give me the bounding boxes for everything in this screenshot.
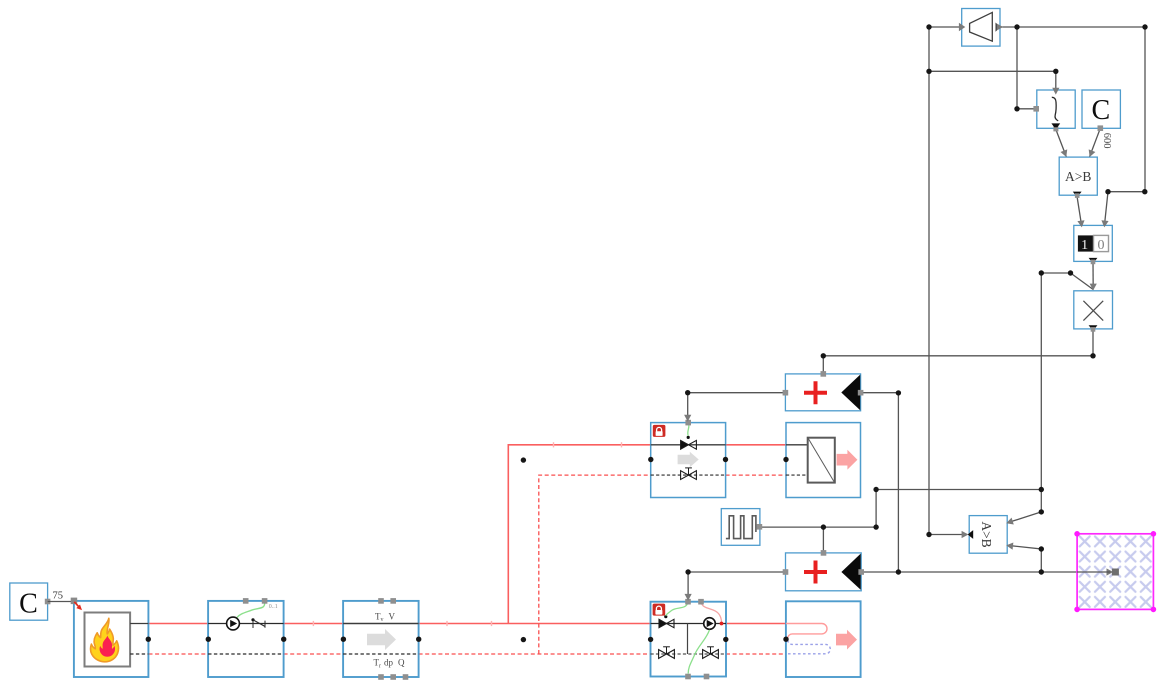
internal supply line [651,623,727,625]
heat output arrow (pink) [836,630,857,650]
input arrow: A>B1 input A [1061,149,1070,158]
junction dot: node gain output branch [1014,24,1019,29]
junction dot: heat exchanger inlet port [783,457,788,462]
wire: gain output branch into switch left input [1017,27,1034,109]
input arrow: selector input 1 [1077,220,1085,228]
junction dot: riser corner junction [521,457,526,462]
plus sign [804,561,827,584]
gain block (triangle) [962,9,1004,47]
internal return line [651,653,727,655]
junction dot: sensor inlet port [341,637,346,642]
internal supply line [786,444,808,446]
junction dot: node top adder feedback [896,390,901,395]
junction dot: node pulse net turn [873,524,878,529]
junction dot: node A>B2 output corner [926,532,931,537]
svg-text:A>B: A>B [979,521,994,547]
balancing valve (return) [681,468,697,480]
switch block (trigger) [1033,90,1075,131]
flow arrow [678,452,699,467]
wire: bottom adder output to bottom valve group control input [688,572,785,599]
junction dot: boiler outlet port [146,637,151,642]
junction dot: node selector input corner [1105,189,1110,194]
square wave icon [726,516,756,539]
wire: product output down and left to top adder input [823,329,1093,372]
pump block internal supply line [208,623,284,625]
svg-text:600: 600 [1101,133,1112,149]
svg-text:1: 1 [1081,238,1088,253]
pulse generator block [721,509,762,546]
junction dot: node room bus to A>B2 [1039,569,1044,574]
red input arrow at boiler corner [74,602,84,612]
junction dot: node bottom valve control corner [685,569,690,574]
junction dot: bottom valve group inlet port [648,637,653,642]
heat output arrow (pink) [837,450,858,470]
wire: pulse net corner into product second input [1041,273,1093,290]
svg-text:0: 0 [1098,238,1105,253]
pump block internal return line [208,653,284,655]
input arrow: switch trigger [1052,88,1059,95]
flame icon [91,618,119,662]
junction dot: node product input corner [1068,270,1073,275]
wire: supply bottom valve group to floor heating (red) [726,623,786,625]
input arrow: A>B2 input A [1005,518,1014,527]
wire: constant 75 to boiler input [48,601,74,603]
wire: pulse output line [760,526,876,528]
wire: gain output right branch down to selector input [1104,27,1145,227]
junction dot: node trunk/gain input [926,24,931,29]
svg-text:75: 75 [53,591,64,602]
internal return line [786,474,808,476]
svg-text:C: C [19,589,38,620]
internal supply line [651,444,726,446]
junction dot: top valve group outlet port [723,457,728,462]
junction dot: node top adder input corner [821,353,826,358]
control valve V1 [681,440,697,449]
input arrow: product [1090,284,1097,291]
sensor internal return line [343,653,419,655]
sensor internal supply line [343,623,419,625]
wire: pulse net up and right [876,490,1041,528]
boiler block with flame [71,598,149,677]
balancing valve 2 (return) [703,647,719,659]
wire: gain output bus to right [1000,26,1145,28]
green control squiggle from pump down [688,630,709,674]
wire: switch output to comparator A>B1 input A [1056,129,1067,157]
wire: top adder output to top valve group control input [688,393,786,420]
wire: trunk from comparator A>B2 output up to gain input [929,27,962,535]
tick marks on supply line [313,442,621,626]
comparator block A>B (2, rotated) [968,516,1008,554]
input arrow: A>B1 input B [1086,149,1095,158]
pump symbol P1 [227,617,240,630]
junction dot: node switch trigger corner [1053,69,1058,74]
wire: pulse net down to comparator A>B2 input A [1040,490,1042,512]
wire: comparator A>B1 output to selector input [1077,198,1082,227]
svg-text:A>B: A>B [1065,169,1091,184]
green control squiggle to valve [666,602,688,616]
junction dot: node right bus corner [1142,189,1147,194]
valve actuator dot [664,615,667,618]
constant block C 75 (boiler set temperature) [10,583,51,620]
pump block with switch [208,598,284,677]
junction dot: sensor outlet port [416,637,421,642]
exchanger body with diagonal [808,438,835,483]
floor heating block [786,601,861,677]
wire: return top valve group to heat exchanger (red dashed) [726,474,786,476]
junction dot: floor heating inlet port [783,637,788,642]
bypass line [687,624,689,655]
comparator block A>B (1) [1059,157,1097,198]
junction dot: node A>B2 input A corner [1039,509,1044,514]
wire: comparator A>B2 output to trunk [929,534,967,536]
junction dot: riser branch junction [521,637,526,642]
red control curve [701,602,722,622]
junction dot: node top valve control corner [685,390,690,395]
input arrow: bottom valve control [685,594,692,601]
wire: top adder right input from feedback junction [861,392,899,394]
wire: room bus to comparator A>B2 input B [1007,545,1041,572]
junction dot: pump outlet port [281,637,286,642]
return pipe serpentine (blue dashed) [786,640,830,654]
boiler supply stub [130,623,148,625]
junction dot: bottom valve group outlet port [723,637,728,642]
adder input triangle [841,554,860,590]
input arrow: A>B2 input B [1006,542,1014,550]
junction dot: node switch left input corner [1014,106,1019,111]
balancing valve 1 (return) [659,647,675,659]
wire: return bottom valve group to floor heating (red dashed) [726,653,786,655]
boiler return stub [130,653,148,655]
wire: return boiler to pump (red dashed) [149,653,209,655]
lock icon [653,425,666,437]
adder input triangle [841,375,860,411]
wire: supply pump to sensor (red) [284,623,344,625]
control signal curve (green) [237,602,265,617]
wire: supply riser to top valve group (red) [508,445,650,624]
room / thermal zone block (magenta) [1074,531,1156,612]
bottom valve group block (valve + pump, locked) [651,599,727,679]
bottom adder block (+) [783,550,864,591]
wire: supply top valve group to heat exchanger (red) [726,444,786,446]
gain triangle icon [970,12,993,41]
heat exchanger / radiator block [786,423,861,498]
junction dot: node gain output right corner [1142,24,1147,29]
input arrow: gain [959,23,965,31]
input arrow: top valve control [684,415,691,422]
svg-text:C: C [1092,95,1111,126]
wire: pulse branch down into bottom adder top input [822,527,824,551]
top adder block (+) [783,371,864,411]
junction dot: node trunk/switch branch [926,69,931,74]
junction dot: node pulse net to product corner [1039,270,1044,275]
lock icon [653,604,666,616]
wire: room bus segment inside room block [1077,571,1110,573]
constant block C 600 [1082,90,1120,131]
junction dot: node pulse to bottom adder [821,524,826,529]
wire: selector output to product input [1092,261,1094,289]
junction dot: pump inlet port [206,637,211,642]
valve actuator dot [687,436,690,439]
wire: supply sensor to bottom valve group (red) [419,623,651,625]
svg-text:0..1: 0..1 [269,604,278,610]
junction dot: node pulse net corner [873,487,878,492]
green control squiggle [688,423,689,436]
control valve V2 [659,619,674,627]
room center connector [1107,568,1114,575]
input arrow: selector input 2 [1101,220,1109,228]
top valve group block (heating circuit, locked) [651,420,726,498]
wire: room feedback bus into room block center [861,571,1112,573]
wire: return riser from top valve group (red dashed) [539,475,651,654]
circulation pump P2 [704,618,716,630]
junction dot: node A>B2 input B corner [1039,546,1044,551]
wire: supply boiler to pump (red) [149,623,209,625]
plus sign [804,381,827,404]
supply pipe serpentine (pink) [786,624,827,640]
product block (x) [1074,291,1113,332]
sensor flow arrow [367,629,396,650]
switch curve icon [1052,97,1058,121]
wire: return pump to sensor (red dashed) [284,653,344,655]
wire: feedback junction vertical [897,393,899,572]
flow/temperature sensor block [343,598,419,680]
selector block 1/0 [1074,225,1113,264]
junction dot: node pulse net tee [1039,487,1044,492]
junction dot: node room bus tee [896,569,901,574]
wire: branch from trunk to switch trigger input [929,71,1056,90]
wire: constant 600 output to comparator A>B1 input B [1090,128,1101,156]
internal return line [651,474,726,476]
wire: return sensor to bottom valve group (red dashed) [419,653,651,655]
output arrow: A>B2 meets wire [962,531,969,538]
switch contact symbol [251,618,265,628]
junction dot: top valve group inlet port [648,457,653,462]
junction dot: node product output corner [1090,353,1095,358]
wire: pulse net vertical up to product branch corner [1040,273,1042,490]
